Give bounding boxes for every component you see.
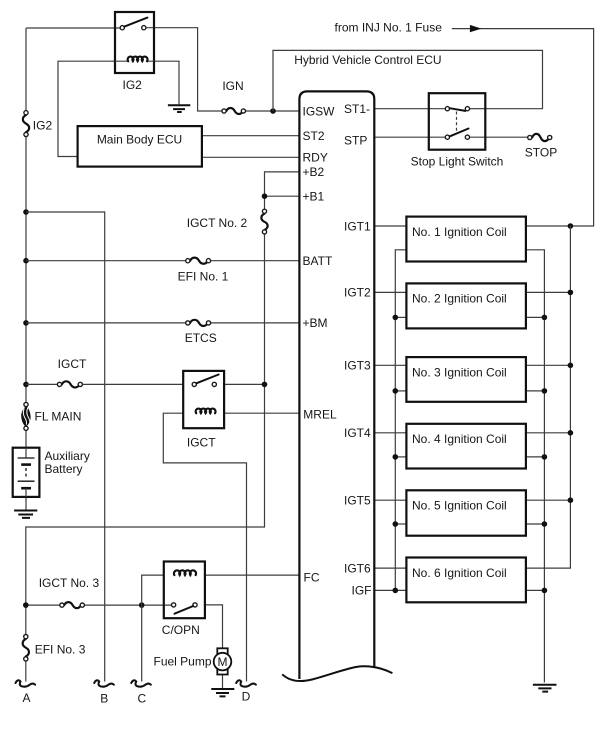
relay C/OPN coil <box>174 570 196 575</box>
switch lower contacts <box>445 135 449 139</box>
svg-text:Main Body ECU: Main Body ECU <box>97 132 182 146</box>
coil No.4 Ignition Coil box <box>406 424 526 469</box>
ground below battery <box>14 511 37 518</box>
wire coil 4 +B leg <box>526 432 571 434</box>
svg-text:No. 3 Ignition Coil: No. 3 Ignition Coil <box>412 365 507 379</box>
node rail1 to B-rail junction <box>23 209 29 215</box>
relay C/OPN contacts <box>172 603 176 607</box>
node IGF rail junction <box>393 588 399 594</box>
node coil4 IGF junction <box>393 454 399 460</box>
wire coil 1 ground leg and ground rail <box>526 250 545 683</box>
svg-text:D: D <box>242 689 251 703</box>
coil No.6 Ignition Coil box <box>406 558 526 603</box>
svg-text:No. 1 Ignition Coil: No. 1 Ignition Coil <box>412 225 507 239</box>
wire +B1 pin to power rail <box>265 195 300 197</box>
wire coil 3 ground leg <box>526 390 545 392</box>
node +B1 junction <box>262 193 268 199</box>
svg-text:A: A <box>22 691 30 705</box>
svg-text:Fuel Pump: Fuel Pump <box>154 655 212 669</box>
svg-text:MREL: MREL <box>303 408 337 422</box>
wire +B rail down to coil 6 <box>526 226 571 568</box>
node coil3 ground junction <box>542 388 548 394</box>
svg-text:EFI No. 1: EFI No. 1 <box>178 270 229 284</box>
node coil5 +B junction <box>568 497 574 503</box>
wire +BM row with ETCS fuse to +BM pin <box>26 322 300 324</box>
wire IGT3 pin to coil 3 <box>375 364 407 366</box>
relay C/OPN box <box>164 562 205 619</box>
ground below fuel pump <box>211 689 234 696</box>
switch lower blade <box>450 129 469 137</box>
wire EFI No.3 fuse to terminal A <box>25 661 27 682</box>
wire B rail from battery rail down to terminal B <box>26 212 105 682</box>
svg-text:IGCT No. 2: IGCT No. 2 <box>187 216 248 230</box>
wire IGF pin to coil 6 <box>375 589 407 591</box>
relay IG2 switch blade <box>124 18 147 27</box>
wire IGT5 pin to coil 5 <box>375 499 407 501</box>
wire coil 6 ground leg <box>526 589 545 591</box>
wire IGCT relay coil left leg down to terminal D rail <box>163 413 246 681</box>
svg-text:BATT: BATT <box>303 254 333 268</box>
wire ST1- pin to stop light switch <box>375 108 446 110</box>
switch link (dashed) <box>456 112 458 135</box>
wire coil 4 IGF leg <box>395 456 406 458</box>
wire battery rail top segment <box>25 28 27 111</box>
wire coil 2 IGF leg <box>395 316 406 318</box>
svg-text:C: C <box>137 692 146 706</box>
ground below IG2 relay <box>168 105 190 112</box>
wire ST2 row Main Body ECU to ECU <box>202 135 300 137</box>
node C rail junction <box>139 602 145 608</box>
fuse IGCT No.2 (vertical, on power rail) <box>261 214 267 230</box>
svg-text:Hybrid Vehicle Control ECU: Hybrid Vehicle Control ECU <box>294 53 441 67</box>
wire coil 5 IGF leg <box>395 523 406 525</box>
node coil2 IGF junction <box>393 315 399 321</box>
fuse STOP (horizontal) <box>532 134 549 141</box>
fusible link FL MAIN <box>22 407 30 427</box>
svg-text:IGT3: IGT3 <box>344 359 371 373</box>
svg-text:IGT1: IGT1 <box>344 220 371 234</box>
svg-text:STP: STP <box>344 133 367 147</box>
box Main Body ECU <box>78 126 202 167</box>
svg-text:IGT5: IGT5 <box>344 494 371 508</box>
node rail1 IGCT row junction <box>23 382 29 388</box>
relay IGCT contacts <box>192 382 196 386</box>
wire IGCT No.3 row from rail1 to C/OPN switch <box>26 604 172 606</box>
terminal A squiggle <box>16 680 36 686</box>
svg-text:IGN: IGN <box>222 79 243 93</box>
svg-text:IGT2: IGT2 <box>344 286 371 300</box>
svg-text:FL MAIN: FL MAIN <box>35 410 82 424</box>
wire switch upper contact to box edge <box>470 108 486 110</box>
node coil6 ground junction <box>542 588 548 594</box>
svg-text:IGCT: IGCT <box>187 436 216 450</box>
wire C/OPN coil to FC pin <box>205 574 300 576</box>
wire coil 3 IGF leg <box>395 390 406 392</box>
coil No.1 Ignition Coil box <box>406 217 526 262</box>
svg-text:ST1-: ST1- <box>344 102 370 116</box>
svg-text:Battery: Battery <box>45 462 83 476</box>
relay IG2 coil <box>115 60 154 62</box>
wire STP pin to stop light switch <box>375 136 446 138</box>
ecu Hybrid Vehicle Control ECU (rounded body with wavy break) <box>299 91 374 679</box>
svg-text:RDY: RDY <box>303 151 328 165</box>
wire IGCT relay coil to MREL pin <box>224 412 299 414</box>
wire +B2 pin to power rail <box>265 172 300 209</box>
wire IG2 relay contact output down to IGN fuse <box>146 28 222 111</box>
fuse IGCT (horizontal) <box>62 381 80 387</box>
svg-text:IGCT: IGCT <box>58 357 87 371</box>
wire fuel pump to ground <box>222 675 224 689</box>
wire IGSW branch up over to stop light switch <box>273 50 543 111</box>
svg-text:IGT6: IGT6 <box>344 561 371 575</box>
wire IGT2 pin to coil 2 <box>375 291 407 293</box>
wire coil 4 ground leg <box>526 456 545 458</box>
relay IGCT switch blade <box>196 375 218 384</box>
wire coil 2 ground leg <box>526 316 545 318</box>
svg-text:No. 5 Ignition Coil: No. 5 Ignition Coil <box>412 499 507 513</box>
svg-text:IGSW: IGSW <box>303 104 336 118</box>
node coil2 ground junction <box>542 315 548 321</box>
svg-text:IGF: IGF <box>352 584 372 598</box>
wire coil 5 +B leg <box>526 499 571 501</box>
node IGCT output junction on power rail <box>262 382 268 388</box>
wire C/OPN switch output to fuel pump <box>205 605 223 648</box>
node coil4 +B junction <box>568 430 574 436</box>
wire C rail down to terminal C <box>141 605 143 681</box>
relay IGCT box <box>183 371 224 428</box>
wire FL MAIN fuse to battery <box>25 430 27 447</box>
wire IGCT relay contact output to power rail <box>224 383 264 385</box>
fuse IGN (horizontal) <box>226 108 243 114</box>
switch upper contacts <box>445 107 449 111</box>
wire C/OPN coil left leg to switch input node <box>142 575 164 605</box>
node rail1 BATT row junction <box>23 258 29 264</box>
switch upper blade <box>450 108 466 111</box>
terminal B squiggle <box>94 680 114 686</box>
terminal D squiggle <box>236 680 256 686</box>
wire top row to IG2 relay contact <box>26 27 120 29</box>
node rail1 IGCT No.3 junction <box>23 602 29 608</box>
node coil5 IGF junction <box>393 521 399 527</box>
wire IG2 relay coil row to Main Body ECU <box>58 61 115 156</box>
fuse ETCS (horizontal) <box>190 320 208 326</box>
wire IG2 relay coil to ground <box>154 61 179 104</box>
wire IGN fuse to IGSW pin <box>246 110 300 112</box>
wire battery to ground <box>25 497 27 511</box>
wire coil 1 IGF leg and IGF rail <box>395 250 406 591</box>
svg-text:EFI No. 3: EFI No. 3 <box>35 642 86 656</box>
wire BATT row with EFI No.1 fuse to BATT pin <box>26 260 300 262</box>
wire from INJ No.1 fuse feed <box>452 29 594 226</box>
relay IG2 box <box>115 12 154 73</box>
ground at bottom right (ignition coils) <box>533 685 557 692</box>
wire RDY row Main Body ECU to ECU <box>202 156 300 158</box>
svg-text:No. 2 Ignition Coil: No. 2 Ignition Coil <box>412 292 507 306</box>
svg-text:ST2: ST2 <box>303 129 325 143</box>
wire power rail below IGCT No.2 fuse down to bottom corner <box>26 234 265 635</box>
wire IGT6 pin to coil 6 <box>375 567 407 569</box>
svg-text:IG2: IG2 <box>33 118 53 132</box>
svg-text:IGT4: IGT4 <box>344 426 371 440</box>
motor fuel pump <box>217 648 227 655</box>
relay IG2 contacts <box>120 26 124 30</box>
relay C/OPN switch blade <box>175 606 194 614</box>
wire coil 3 +B leg <box>526 364 571 366</box>
node coil3 IGF junction <box>393 388 399 394</box>
terminal C squiggle <box>131 680 151 686</box>
battery Auxiliary Battery <box>13 448 40 497</box>
wire switch lower contact to STOP fuse <box>470 136 528 138</box>
svg-text:FC: FC <box>304 571 320 585</box>
ecu wavy bottom break <box>282 666 392 681</box>
wire coil 5 ground leg <box>526 523 545 525</box>
svg-text:IG2: IG2 <box>123 78 143 92</box>
node coil4 ground junction <box>542 454 548 460</box>
fuse IG2 (vertical, on left rail) <box>23 115 29 132</box>
node +B rail top junction <box>568 223 574 229</box>
wire IGT4 pin to coil 4 <box>375 432 407 434</box>
svg-text:Auxiliary: Auxiliary <box>45 449 90 463</box>
svg-text:+B1: +B1 <box>303 190 325 204</box>
fuse EFI No.3 (vertical, on left rail) <box>23 639 29 657</box>
wire IGT1 pin to coil 1 <box>375 225 407 227</box>
fuse IGCT No.3 (horizontal) <box>64 602 81 608</box>
svg-text:No. 4 Ignition Coil: No. 4 Ignition Coil <box>412 432 507 446</box>
svg-text:+B2: +B2 <box>303 165 325 179</box>
svg-text:M: M <box>218 655 228 669</box>
coil No.5 Ignition Coil box <box>406 490 526 535</box>
wire IGCT fuse row to IGCT relay <box>26 383 183 385</box>
node IGSW junction <box>270 108 276 114</box>
switch Stop Light Switch box <box>429 93 486 150</box>
wire IG2 fuse to FL MAIN fuse (left rail) <box>25 137 27 403</box>
svg-text:ETCS: ETCS <box>185 331 217 345</box>
coil No.3 Ignition Coil box <box>406 357 526 402</box>
svg-text:+BM: +BM <box>303 316 328 330</box>
svg-text:from INJ No. 1 Fuse: from INJ No. 1 Fuse <box>335 20 443 34</box>
relay IGCT coil <box>196 409 216 414</box>
svg-text:STOP: STOP <box>525 145 557 159</box>
coil No.2 Ignition Coil box <box>406 283 526 328</box>
svg-text:B: B <box>100 692 108 706</box>
node coil2 +B junction <box>568 290 574 296</box>
node rail1 +BM row junction <box>23 320 29 326</box>
svg-text:IGCT No. 3: IGCT No. 3 <box>39 576 100 590</box>
svg-text:C/OPN: C/OPN <box>162 623 200 637</box>
node coil3 +B junction <box>568 363 574 369</box>
svg-text:No. 6 Ignition Coil: No. 6 Ignition Coil <box>412 566 507 580</box>
fuse EFI No.1 (horizontal) <box>190 258 208 264</box>
arrowhead on INJ feed wire <box>470 25 482 32</box>
svg-text:Stop Light Switch: Stop Light Switch <box>411 155 504 169</box>
node coil5 ground junction <box>542 521 548 527</box>
wire coil 2 +B leg <box>526 291 571 293</box>
